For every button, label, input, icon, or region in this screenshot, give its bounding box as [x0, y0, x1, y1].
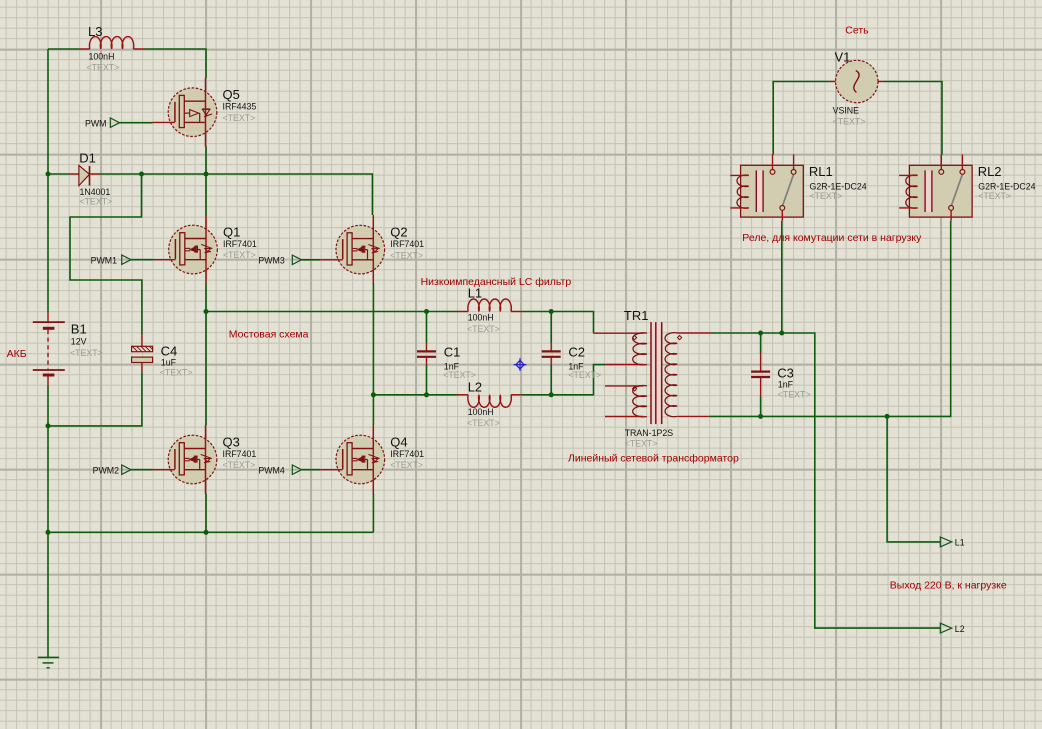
svg-text:1N4001: 1N4001 — [80, 187, 111, 197]
svg-text:VSINE: VSINE — [833, 105, 860, 115]
svg-text:<TEXT>: <TEXT> — [390, 460, 423, 470]
transformer TR1 (TRAN-1P2S) — [594, 308, 712, 448]
svg-text:L1: L1 — [955, 538, 965, 548]
terminal PWM — [99, 118, 120, 127]
svg-text:Q4: Q4 — [390, 435, 407, 450]
svg-text:Q2: Q2 — [390, 225, 407, 240]
svg-text:IRF4435: IRF4435 — [223, 102, 257, 112]
junction (206,311.5) — [204, 309, 209, 314]
diode D1 (1N4001) — [70, 150, 113, 206]
blue origin marker — [514, 358, 527, 371]
svg-text:RL2: RL2 — [978, 164, 1002, 179]
svg-text:<TEXT>: <TEXT> — [87, 63, 120, 73]
junction (48,425.9) — [46, 423, 51, 428]
svg-text:<TEXT>: <TEXT> — [443, 370, 476, 380]
junction (551.2,311.5) — [549, 309, 554, 314]
wire: L1 output branch — [887, 416, 940, 542]
junction (781.8,333) — [779, 331, 784, 336]
wire: D1 cathode rail to Q1/Q2 drains — [100, 174, 372, 215]
svg-text:<TEXT>: <TEXT> — [223, 460, 256, 470]
junction (373.4,394.8) — [371, 392, 376, 397]
transistor Q4 (IRF7401) — [320, 425, 424, 494]
wire: detour from D1 rail down to C4 — [70, 174, 142, 335]
junction (141.5,174) — [139, 172, 144, 177]
svg-text:Q3: Q3 — [223, 435, 240, 450]
ground — [38, 657, 59, 667]
wire: secondary top rail to output L2 — [711, 333, 940, 628]
svg-text:C4: C4 — [161, 343, 178, 358]
svg-text:L2: L2 — [955, 624, 965, 634]
junction (48,174) — [46, 172, 51, 177]
svg-text:<TEXT>: <TEXT> — [80, 197, 113, 207]
wire: Q3 gate from PWM2 — [131, 469, 153, 471]
svg-text:Сеть: Сеть — [845, 25, 869, 37]
wire: Q1 source to Q3 drain — [205, 284, 207, 425]
terminal PWM1 — [111, 255, 132, 264]
wire: Q1 gate from PWM1 — [131, 259, 153, 261]
wire: RL1 common drop to top rail — [781, 221, 783, 333]
svg-text:<TEXT>: <TEXT> — [467, 324, 500, 334]
wire: Q4 source to bottom rail — [372, 494, 374, 532]
svg-text:<TEXT>: <TEXT> — [833, 117, 866, 127]
wire: LC filter bottom rail — [373, 394, 457, 396]
svg-text:RL1: RL1 — [809, 164, 833, 179]
svg-text:<TEXT>: <TEXT> — [70, 348, 103, 358]
transistor Q2 (IRF7401) — [320, 215, 424, 284]
wire: Q5 source to D1 rail — [205, 147, 207, 175]
wire: LC filter top rail — [206, 311, 458, 313]
svg-text:<TEXT>: <TEXT> — [467, 418, 500, 428]
capacitor C3 (1nF) — [751, 353, 810, 400]
transistor Q5 (IRF4435) — [153, 78, 257, 147]
svg-text:<TEXT>: <TEXT> — [390, 250, 423, 260]
junction (426.5,394.8) — [424, 392, 429, 397]
svg-text:C1: C1 — [444, 344, 461, 359]
svg-text:100nH: 100nH — [468, 407, 494, 417]
wire: Q2 gate from PWM3 — [302, 259, 321, 261]
relay RL1 (G2R-1E-DC24) — [730, 154, 867, 220]
terminal L2 output — [940, 623, 951, 633]
svg-text:IRF7401: IRF7401 — [223, 239, 257, 249]
wire: C4 bottom to left rail — [48, 372, 142, 426]
wire: Q3 source to bottom rail — [205, 494, 207, 532]
junction (887.1,416.4) — [885, 414, 890, 419]
svg-text:Выход 220 В, к нагрузке: Выход 220 В, к нагрузке — [890, 579, 1007, 591]
wire: Q5 gate from PWM terminal — [120, 122, 153, 124]
svg-text:L2: L2 — [468, 380, 482, 395]
svg-text:<TEXT>: <TEXT> — [160, 368, 193, 378]
inductor L1 — [458, 286, 522, 334]
relay RL2 (G2R-1E-DC24) — [899, 154, 1036, 220]
svg-text:Q1: Q1 — [223, 225, 240, 240]
svg-text:PWM4: PWM4 — [258, 465, 284, 475]
svg-text:PWM3: PWM3 — [258, 255, 284, 265]
wire: Q2 source to Q4 drain — [372, 284, 374, 425]
wire: V1 right to RL2 pole — [885, 82, 943, 155]
junction (426.5,311.5) — [424, 309, 429, 314]
junction (206,532.3) — [204, 530, 209, 535]
battery B1 (12V) — [33, 312, 103, 385]
junction (760.6,333) — [758, 331, 763, 336]
transistor Q3 (IRF7401) — [153, 425, 257, 494]
wire: bottom rail — [48, 531, 373, 533]
inductor L2 — [458, 380, 522, 428]
svg-text:Реле, для комутации сети в наг: Реле, для комутации сети в нагрузку — [742, 232, 922, 244]
svg-text:IRF7401: IRF7401 — [390, 449, 424, 459]
svg-text:<TEXT>: <TEXT> — [810, 191, 843, 201]
svg-text:<TEXT>: <TEXT> — [978, 191, 1011, 201]
wire: D1 anode rail — [48, 173, 70, 175]
svg-text:100nH: 100nH — [89, 52, 115, 62]
svg-text:<TEXT>: <TEXT> — [625, 438, 658, 448]
svg-text:12V: 12V — [71, 337, 87, 347]
svg-text:Мостовая схема: Мостовая схема — [229, 329, 309, 341]
svg-text:<TEXT>: <TEXT> — [568, 370, 601, 380]
junction (48,532.3) — [46, 530, 51, 535]
svg-text:Q5: Q5 — [223, 87, 240, 102]
capacitor C2 (1nF) — [542, 343, 601, 380]
terminal L1 output — [940, 537, 951, 547]
wire: left vertical rail (battery branch) — [47, 49, 49, 312]
svg-text:<TEXT>: <TEXT> — [223, 250, 256, 260]
terminal PWM2 — [111, 465, 132, 474]
junction (206,174) — [204, 172, 209, 177]
inductor L3 — [80, 24, 145, 73]
wire: V1 left to RL1 pole — [773, 82, 829, 155]
svg-text:PWM1: PWM1 — [91, 255, 117, 265]
svg-text:L1: L1 — [468, 286, 482, 301]
svg-text:<TEXT>: <TEXT> — [778, 389, 811, 399]
svg-text:100nH: 100nH — [468, 313, 494, 323]
svg-text:V1: V1 — [835, 50, 851, 65]
svg-text:IRF7401: IRF7401 — [390, 239, 424, 249]
svg-text:TR1: TR1 — [624, 308, 649, 323]
svg-text:L3: L3 — [88, 24, 102, 39]
svg-text:АКБ: АКБ — [7, 348, 27, 360]
svg-text:C2: C2 — [568, 344, 585, 359]
junction (551.2,394.8) — [549, 392, 554, 397]
terminal PWM4 — [281, 465, 302, 474]
svg-text:PWM: PWM — [85, 118, 107, 128]
wire: C2 verticals — [550, 312, 552, 344]
svg-text:Линейный сетевой трансформатор: Линейный сетевой трансформатор — [568, 453, 739, 465]
wire: secondary bottom rail — [710, 221, 951, 417]
svg-text:D1: D1 — [79, 150, 96, 165]
svg-text:<TEXT>: <TEXT> — [223, 113, 256, 123]
svg-text:PWM2: PWM2 — [93, 465, 119, 475]
capacitor C4 (1uF, polarised) — [132, 335, 193, 378]
junction (760.6,416.4) — [758, 414, 763, 419]
wire: top rail from left loop to Q5 drain — [48, 48, 80, 50]
svg-text:1nF: 1nF — [778, 379, 794, 389]
capacitor C1 (1nF) — [417, 343, 476, 380]
svg-text:TRAN-1P2S: TRAN-1P2S — [625, 428, 674, 438]
wire: C1 verticals — [426, 312, 428, 344]
svg-text:C3: C3 — [777, 365, 794, 380]
svg-text:IRF7401: IRF7401 — [223, 449, 257, 459]
wire: Q4 gate from PWM4 — [302, 469, 321, 471]
wire: Q1 drain stub — [205, 174, 207, 215]
svg-text:B1: B1 — [71, 322, 87, 337]
wire: C3 verticals — [760, 333, 762, 353]
svg-text:Низкоимпедансный LC фильтр: Низкоимпедансный LC фильтр — [421, 276, 572, 288]
svg-text:1uF: 1uF — [161, 357, 177, 367]
generator V1 (VSINE) — [829, 50, 885, 127]
terminal PWM3 — [281, 255, 302, 264]
transistor Q1 (IRF7401) — [153, 215, 257, 284]
